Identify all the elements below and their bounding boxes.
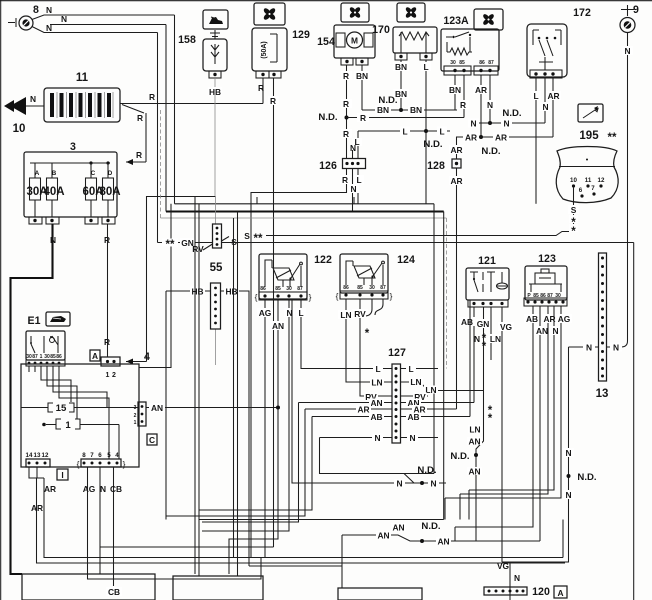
svg-text:87: 87 <box>380 285 386 291</box>
wire BN from 154 <box>354 65 370 110</box>
wire L below 126 <box>354 169 364 204</box>
svg-text:R: R <box>149 92 155 102</box>
wire pair verticals x233 x237 <box>234 212 238 577</box>
wire N from 8 middle <box>50 14 166 25</box>
wire LN from 124 pin86 to 127 <box>338 299 392 382</box>
relay item 124 <box>336 254 393 301</box>
svg-text:S: S <box>244 231 250 241</box>
svg-text:6: 6 <box>98 452 102 459</box>
fuse box item 3 <box>24 152 121 217</box>
svg-text:L: L <box>375 364 380 374</box>
svg-text:N.D.: N.D. <box>378 95 397 106</box>
svg-text:C: C <box>149 435 155 445</box>
connector item 128 <box>452 159 461 168</box>
svg-text:R: R <box>342 175 348 185</box>
svg-text:N: N <box>474 334 480 344</box>
svg-text:86: 86 <box>56 354 62 360</box>
row RV <box>364 392 428 402</box>
svg-text:7: 7 <box>591 185 595 192</box>
row AR <box>305 405 457 415</box>
box 4 bottom pin connectors <box>26 452 126 469</box>
wire N from 8 top <box>32 5 175 20</box>
N bus with junction <box>468 119 545 129</box>
wire GN from 121 <box>476 307 491 391</box>
svg-text:AR: AR <box>475 85 487 95</box>
svg-text:AR: AR <box>450 145 462 155</box>
svg-text:AR: AR <box>44 484 56 494</box>
wire AN junction line y541 <box>342 521 540 547</box>
wire left turndowns from 127 <box>166 403 434 523</box>
wire link 158 to S strip <box>215 197 217 366</box>
svg-text:R: R <box>343 71 349 81</box>
wire HB-left vertical down x166 <box>165 291 167 520</box>
svg-text:HB: HB <box>191 287 203 297</box>
svg-text:LN: LN <box>469 425 480 435</box>
junction N.D. on R wire <box>318 112 348 123</box>
control box item 4 <box>21 364 139 467</box>
svg-text:D: D <box>108 170 113 177</box>
svg-text:N: N <box>50 235 56 245</box>
svg-text:L: L <box>356 175 361 185</box>
svg-text:80A: 80A <box>99 186 120 198</box>
svg-text:N: N <box>100 484 106 494</box>
svg-text:AB: AB <box>407 412 419 422</box>
svg-text:154: 154 <box>317 36 335 48</box>
svg-text:8: 8 <box>82 452 86 459</box>
svg-text:129: 129 <box>292 29 310 41</box>
ground item 9 <box>620 4 639 33</box>
wire GN bus right section to x633 <box>222 243 634 600</box>
wire GN into strip <box>158 238 213 251</box>
svg-text:7: 7 <box>90 452 94 459</box>
svg-text:126: 126 <box>319 160 337 172</box>
relay E1 <box>26 331 65 366</box>
svg-text:**: ** <box>254 233 263 245</box>
bottom box 3 <box>338 588 422 600</box>
svg-text:R: R <box>343 99 349 109</box>
svg-text:120: 120 <box>532 586 550 598</box>
icon box item 158 <box>203 10 228 29</box>
svg-text:AR: AR <box>450 176 462 186</box>
sensor item 158 <box>203 30 227 78</box>
svg-text:AB: AB <box>461 317 473 327</box>
boxed label I <box>57 469 68 480</box>
svg-text:87: 87 <box>297 286 303 292</box>
svg-text:13: 13 <box>34 452 41 459</box>
svg-text:N: N <box>586 343 592 353</box>
row AN <box>299 398 475 408</box>
svg-text:158: 158 <box>178 34 196 46</box>
connector strip item 13 <box>599 253 607 381</box>
wire vertical x443 down thick tail <box>443 212 445 520</box>
svg-text:LN: LN <box>371 378 382 388</box>
svg-text:N: N <box>46 23 52 33</box>
svg-text:AB: AB <box>370 412 382 422</box>
connector A 2pin <box>101 357 120 379</box>
svg-text:L: L <box>423 62 428 72</box>
wire GN chain stars and ND <box>450 391 492 542</box>
wire N feed to big box <box>139 204 171 368</box>
svg-text:N: N <box>470 119 476 129</box>
svg-text:30: 30 <box>44 354 50 360</box>
label 195 <box>579 130 617 144</box>
svg-text:I: I <box>61 470 63 480</box>
connector strip S above 55 <box>213 224 222 248</box>
battery unit item 11 <box>44 88 120 122</box>
svg-text:122: 122 <box>314 254 332 266</box>
svg-text:CB: CB <box>110 484 122 494</box>
svg-text:RV: RV <box>354 309 366 319</box>
svg-text:30: 30 <box>369 285 375 291</box>
svg-text:R: R <box>460 100 466 110</box>
svg-text:**: ** <box>608 132 617 144</box>
wire AG from box 4 <box>83 467 261 579</box>
wire N left of 13 strip <box>569 343 599 353</box>
fuse (50A) item 129 <box>252 28 287 78</box>
wire N from 123 <box>469 306 561 520</box>
svg-text:N.D.: N.D. <box>481 146 500 157</box>
wire R from 154 <box>341 65 352 159</box>
svg-text:N: N <box>30 94 36 104</box>
svg-text:N: N <box>624 46 630 56</box>
svg-text:N.D.: N.D. <box>318 112 337 123</box>
wire R from 129 pin2 down <box>268 78 279 547</box>
svg-text:VG: VG <box>497 561 509 571</box>
svg-text:N: N <box>61 14 67 24</box>
wire N vertical x166 down to thick bus <box>165 25 167 212</box>
svg-text:*: * <box>482 341 487 353</box>
row LN <box>370 377 484 395</box>
svg-text:AN: AN <box>151 403 163 413</box>
component 1 <box>42 419 119 459</box>
svg-text:123A: 123A <box>443 15 469 27</box>
svg-text:N.D.: N.D. <box>423 139 442 150</box>
svg-text:12: 12 <box>598 177 605 184</box>
svg-text:85: 85 <box>275 286 281 292</box>
svg-text:172: 172 <box>573 7 591 19</box>
svg-text:87: 87 <box>488 60 494 66</box>
bottom box 1 <box>22 574 155 600</box>
svg-text:30: 30 <box>450 60 456 66</box>
svg-text:N: N <box>487 100 493 110</box>
svg-text:AN: AN <box>468 437 480 447</box>
wire HB right of 55 <box>221 287 250 567</box>
wire N down from 13 crossing with junction <box>502 347 597 562</box>
wire AB from 121 to AN row <box>460 307 475 403</box>
svg-text:S: S <box>571 205 577 215</box>
svg-text:AR: AR <box>357 405 369 415</box>
svg-text:AR: AR <box>495 133 507 143</box>
wire R below 126 thick to left <box>251 169 351 558</box>
wire RV from 124 pin85 to 127 <box>352 299 392 396</box>
svg-text:LN: LN <box>425 385 436 395</box>
svg-text:4: 4 <box>115 452 119 459</box>
svg-text:{: { <box>255 292 258 302</box>
svg-text:R: R <box>104 337 110 347</box>
wire N from box 4 <box>100 467 274 574</box>
svg-text:30: 30 <box>26 354 32 360</box>
svg-text:13: 13 <box>596 388 609 400</box>
svg-text:A: A <box>92 351 98 361</box>
fuse box pin connectors <box>29 217 115 224</box>
svg-text:B: B <box>52 170 57 177</box>
svg-text:N: N <box>350 184 356 194</box>
wire S from 195 pin10 <box>568 187 579 238</box>
svg-text:AG: AG <box>259 308 272 318</box>
wire R from 11 to 129 <box>120 92 263 104</box>
svg-text:VG: VG <box>500 322 512 332</box>
connector strip item 127 <box>392 364 401 443</box>
svg-text:86: 86 <box>343 285 349 291</box>
wire L from 172 <box>531 78 541 204</box>
boxed label A bottom <box>554 586 567 598</box>
svg-text:AG: AG <box>83 484 96 494</box>
svg-text:*: * <box>571 226 576 238</box>
svg-text:N: N <box>430 479 436 489</box>
wire VG from 121 down <box>498 307 514 600</box>
svg-text:N: N <box>350 143 356 153</box>
svg-text:R: R <box>137 113 143 123</box>
svg-text:2: 2 <box>112 372 116 379</box>
wire dashed vertical x161 <box>160 110 162 218</box>
svg-text:AN: AN <box>370 398 382 408</box>
svg-text:N.D.: N.D. <box>417 465 436 476</box>
svg-text:R: R <box>258 83 264 93</box>
connector C strip <box>134 402 146 426</box>
svg-text:M: M <box>351 36 358 46</box>
svg-text:127: 127 <box>388 347 406 359</box>
row N <box>320 433 439 443</box>
wire vertical x437 to L row <box>445 218 447 369</box>
wire RV diagonal to strip <box>192 244 212 254</box>
svg-text:10: 10 <box>13 123 26 135</box>
svg-text:10: 10 <box>570 177 577 184</box>
wire vertical x430 down <box>433 204 435 474</box>
svg-text:LN: LN <box>340 310 351 320</box>
wire HB left of 55 <box>166 287 211 297</box>
svg-text:12: 12 <box>42 452 49 459</box>
wire bus line y210 thick <box>166 210 444 212</box>
resistor unit item 170 <box>393 27 437 60</box>
svg-text:3: 3 <box>70 141 76 153</box>
svg-text:1: 1 <box>40 354 43 360</box>
wire VG label <box>497 561 520 583</box>
svg-text:AN: AN <box>468 467 480 477</box>
wire N from 122 pin30 <box>202 300 295 531</box>
svg-text:AR: AR <box>31 503 43 513</box>
internal wires nest <box>29 366 109 459</box>
wire N from fuse box to bottom left <box>11 224 57 574</box>
svg-text:N.D.: N.D. <box>421 521 440 532</box>
svg-text:5: 5 <box>107 452 111 459</box>
wire R from 123A pin85 <box>457 75 469 118</box>
svg-text:L: L <box>408 364 413 374</box>
wire AR from 172 <box>546 78 561 137</box>
ground symbol item 8 <box>8 16 33 30</box>
svg-text:N: N <box>565 490 571 500</box>
boxed label C <box>147 434 157 445</box>
svg-text:N: N <box>409 433 415 443</box>
svg-text:RV: RV <box>192 244 204 254</box>
svg-text:}: } <box>390 291 393 301</box>
wire N vertical x174 down to bus <box>174 15 176 204</box>
svg-text:BN: BN <box>449 85 461 95</box>
svg-text:*: * <box>365 328 370 340</box>
svg-text:8: 8 <box>33 4 39 16</box>
svg-text:AB: AB <box>526 314 538 324</box>
svg-text:AN: AN <box>272 321 284 331</box>
component 15 <box>21 403 138 414</box>
wire AN from box to 122 AN <box>146 403 280 413</box>
svg-text:*: * <box>488 413 493 425</box>
svg-text:N.D.: N.D. <box>450 451 469 462</box>
svg-text:BN: BN <box>410 105 422 115</box>
wire R from fuse box to connector A <box>104 224 110 357</box>
svg-text:HB: HB <box>209 87 221 97</box>
stub squiggle 124 pin87 <box>375 299 383 315</box>
svg-text:L: L <box>402 127 407 137</box>
svg-text:R: R <box>360 113 366 123</box>
svg-text:{: { <box>77 459 80 469</box>
wire S from strip with S** line <box>222 231 574 247</box>
pen icon box 195 <box>578 104 603 122</box>
svg-text:L: L <box>298 308 303 318</box>
wire L from 170 down through L bus <box>421 60 431 204</box>
svg-text:1: 1 <box>106 372 110 379</box>
wire AG from 122 pin86 long <box>257 300 273 558</box>
wire S line from connector A to strip <box>147 197 216 362</box>
svg-text:R: R <box>136 150 142 160</box>
wire R from 129 pin1 <box>258 78 264 104</box>
row L labels <box>373 364 438 374</box>
svg-text:1: 1 <box>134 420 137 426</box>
svg-text:6: 6 <box>579 187 583 194</box>
boxed label A <box>90 350 100 361</box>
wire bus line y217 thin <box>161 217 447 219</box>
wire BN from 123A pin30 <box>447 75 463 110</box>
wire AR from box 4 pins <box>29 467 565 563</box>
svg-text:}: } <box>309 292 312 302</box>
svg-text:11: 11 <box>585 177 592 184</box>
svg-text:GN: GN <box>477 319 490 329</box>
svg-text:40A: 40A <box>43 186 64 198</box>
wire N junction line y483 <box>292 300 446 489</box>
svg-text:4: 4 <box>144 351 150 363</box>
svg-text:C: C <box>91 170 96 177</box>
wire CB from box 4 <box>106 467 122 597</box>
svg-text:L: L <box>439 127 444 137</box>
connector item 126 <box>343 159 366 169</box>
wire AB from 123 <box>455 306 540 541</box>
wire R branch to fuse box 3 <box>122 105 146 166</box>
svg-text:14: 14 <box>26 452 33 459</box>
svg-text:N: N <box>374 433 380 443</box>
motor item 154 <box>334 25 375 65</box>
svg-text:86: 86 <box>260 286 266 292</box>
relay item 122 <box>255 254 312 302</box>
svg-text:BN: BN <box>395 62 407 72</box>
svg-text:N.D.: N.D. <box>502 108 521 119</box>
wire N above 126 <box>350 143 356 159</box>
switch unit item 172 <box>527 24 567 78</box>
svg-text:LN: LN <box>410 377 421 387</box>
svg-text:L: L <box>533 91 538 101</box>
wire AR through 128 <box>449 137 464 409</box>
svg-text:87: 87 <box>32 354 38 360</box>
svg-text:N: N <box>613 343 619 353</box>
verticals x195 x199 <box>195 197 199 577</box>
wire AN from 123 <box>534 306 550 541</box>
wire bus line y204 <box>175 197 435 204</box>
wire 4 arrow into connector A <box>126 359 147 365</box>
fan icon 170 <box>397 3 425 22</box>
svg-text:121: 121 <box>478 255 496 267</box>
svg-text:30: 30 <box>286 286 292 292</box>
stub hook 124 pin30 <box>366 299 372 316</box>
svg-text:HB: HB <box>225 287 237 297</box>
svg-text:AN: AN <box>392 523 404 533</box>
svg-text:2: 2 <box>134 413 137 419</box>
connector strip item 55 <box>211 283 221 329</box>
svg-text:123: 123 <box>538 253 556 265</box>
wire N from 123A pin87 <box>484 75 496 123</box>
svg-text:N: N <box>46 5 52 15</box>
switch unit item 121 <box>466 268 509 307</box>
svg-text:124: 124 <box>397 254 415 266</box>
wire N vertical x157 down to GN line <box>157 33 159 243</box>
wire N from 8 bottom <box>32 23 158 33</box>
wire AG from 123 <box>445 306 572 520</box>
svg-text:CB: CB <box>108 587 120 597</box>
svg-text:E1: E1 <box>28 315 41 327</box>
svg-text:195: 195 <box>579 130 599 142</box>
svg-text:BN: BN <box>377 105 389 115</box>
svg-text:A: A <box>557 588 563 598</box>
svg-text:LN: LN <box>490 334 501 344</box>
wire AR from 123A pin86 <box>473 75 489 137</box>
svg-text:128: 128 <box>427 160 445 172</box>
svg-text:N: N <box>514 573 520 583</box>
svg-text:**: ** <box>166 239 175 251</box>
svg-text:AN: AN <box>437 537 449 547</box>
svg-text:85: 85 <box>357 285 363 291</box>
wire AN from 122 pin85 <box>229 300 286 574</box>
wire L above 126 <box>352 131 362 159</box>
svg-text:N: N <box>542 102 548 112</box>
svg-text:AN: AN <box>377 531 389 541</box>
wire N from 172 <box>540 78 551 123</box>
R bus <box>347 113 465 123</box>
svg-text:A: A <box>35 170 40 177</box>
svg-text:11: 11 <box>76 72 89 84</box>
svg-text:{: { <box>336 291 339 301</box>
svg-text:86: 86 <box>479 60 485 66</box>
svg-text:N: N <box>565 448 571 458</box>
relay item 123A <box>441 29 499 75</box>
connector blob item 195 <box>556 147 618 203</box>
svg-text:55: 55 <box>210 262 223 274</box>
svg-text:AR: AR <box>465 133 477 143</box>
svg-text:R: R <box>104 235 110 245</box>
relay item 123 <box>524 266 567 306</box>
wire N from 9 down right edge <box>607 33 634 353</box>
svg-text:AG: AG <box>558 314 571 324</box>
svg-text:R: R <box>343 129 349 139</box>
wire BN from 170 <box>393 60 409 110</box>
fan icon 129 <box>254 3 285 25</box>
svg-text:AR: AR <box>547 91 559 101</box>
row AB <box>312 300 470 422</box>
